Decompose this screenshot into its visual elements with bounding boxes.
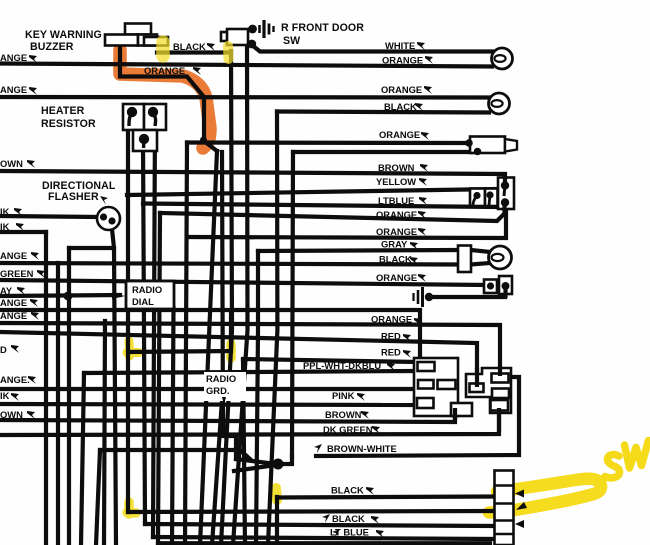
svg-text:RED: RED	[381, 347, 401, 358]
yellow mark bottom left corner	[127, 502, 136, 514]
wire ik2	[0, 230, 46, 234]
wire stem orange into dot2	[502, 203, 506, 216]
wire orange C to socket2	[0, 95, 489, 100]
wire v69 flasher leg lower	[67, 248, 71, 545]
right label hook arrows	[314, 42, 433, 538]
wire v258	[256, 251, 258, 545]
svg-text:WHITE: WHITE	[385, 40, 415, 51]
svg-text:IK: IK	[0, 390, 10, 401]
svg-text:ORANGE: ORANGE	[381, 84, 422, 95]
wire gray radio dial	[0, 295, 120, 296]
wire merge junction upper	[236, 456, 292, 464]
wire merge lower	[234, 465, 276, 471]
svg-text:ORANGE: ORANGE	[144, 65, 185, 76]
svg-text:HEATER: HEATER	[41, 105, 85, 117]
socket 3	[489, 246, 512, 269]
yellow sw text	[605, 441, 649, 478]
wire brown-white	[316, 377, 519, 456]
wire red2	[243, 359, 416, 362]
switch dots	[248, 25, 257, 34]
svg-text:BROWN: BROWN	[325, 409, 362, 420]
svg-text:PINK: PINK	[332, 390, 355, 401]
wire brown row	[0, 171, 505, 183]
wire radio grd drop	[212, 400, 222, 545]
junction dot kink	[200, 137, 207, 144]
labels left edge	[0, 52, 34, 420]
wire v228	[221, 51, 232, 545]
svg-text:ANGE: ANGE	[0, 297, 27, 308]
wire gray right to socket3	[471, 250, 490, 252]
right side labels	[303, 40, 423, 538]
svg-text:RESISTOR: RESISTOR	[41, 118, 96, 130]
wire radio yellow mark	[129, 311, 231, 352]
svg-text:YELLOW: YELLOW	[376, 176, 416, 187]
gray black inline rect	[458, 246, 471, 273]
svg-text:GRD.: GRD.	[206, 385, 229, 396]
wire orange A left to socket1	[0, 64, 492, 67]
svg-text:LTBLUE: LTBLUE	[378, 195, 414, 206]
wire v58	[56, 263, 60, 545]
svg-text:ORANGE: ORANGE	[379, 129, 420, 140]
ground symbol top	[260, 20, 274, 38]
wire black right socket3	[471, 263, 490, 265]
svg-text:R FRONT DOOR: R FRONT DOOR	[281, 22, 364, 34]
wire v128 heater leg left	[126, 116, 130, 512]
svg-text:ANGE: ANGE	[0, 250, 27, 261]
wire pink flasher	[0, 216, 98, 217]
yellow mark radio corner right	[226, 344, 236, 358]
wire orange row5	[187, 207, 506, 238]
svg-text:IK: IK	[0, 221, 10, 232]
wire kink diagonal	[204, 141, 217, 151]
flasher arrow	[100, 196, 108, 205]
svg-text:BROWN-WHITE: BROWN-WHITE	[327, 443, 397, 454]
svg-text:DIAL: DIAL	[132, 296, 154, 307]
wire black to socket2	[277, 112, 489, 113]
wire v246	[233, 42, 248, 545]
ground symbol mid	[414, 287, 423, 307]
wire staircase	[222, 152, 236, 459]
yellow mark black corner	[276, 488, 277, 500]
wire riser red1 into connector	[475, 368, 479, 387]
svg-text:SW: SW	[283, 35, 300, 47]
wire bottom edge	[158, 541, 490, 545]
svg-text:ORANGE: ORANGE	[376, 272, 417, 283]
wire ppl-wht-dkblu	[84, 371, 416, 373]
wire riser brown into block	[453, 408, 457, 420]
wire v114 flasher leg	[112, 229, 116, 545]
wire v155 heater leg right	[153, 118, 155, 537]
wire orange row10	[0, 323, 500, 372]
wire v161	[158, 213, 160, 543]
radio connector block	[414, 358, 472, 416]
wire orange row4	[160, 213, 504, 221]
wire v100	[96, 450, 100, 545]
wire black1 bottom	[277, 497, 495, 498]
wire v293	[292, 152, 293, 456]
svg-text:KEY WARNING: KEY WARNING	[25, 29, 102, 41]
wire dk green	[0, 412, 499, 435]
yellow marker loop sw	[489, 479, 601, 513]
svg-text:ORANGE: ORANGE	[382, 55, 423, 66]
connector orange dot boxes	[484, 276, 512, 294]
svg-text:BLACK: BLACK	[332, 513, 365, 524]
connector brown yellow	[498, 178, 514, 212]
svg-text:BROWN: BROWN	[378, 162, 415, 173]
wire riser dkgreen into connector	[497, 408, 501, 432]
svg-text:AY: AY	[0, 285, 13, 296]
wire v48	[44, 232, 48, 545]
connector mid piece	[466, 368, 511, 413]
yellow mark radio corner left	[127, 341, 139, 356]
strip arrows	[515, 490, 527, 529]
svg-text:BLACK: BLACK	[173, 41, 206, 52]
wire vRED2 drop	[243, 360, 245, 545]
wire orange plug top	[187, 140, 466, 145]
svg-text:BUZZER: BUZZER	[30, 41, 74, 53]
wire black row to socket3	[0, 263, 458, 265]
svg-text:ORANGE: ORANGE	[376, 226, 417, 237]
wire v105	[104, 321, 105, 545]
svg-text:PPL-WHT-DKBLU: PPL-WHT-DKBLU	[303, 360, 381, 371]
wire gray row	[258, 250, 458, 251]
wire riser orange into connector	[498, 366, 502, 376]
yellow mark switch leg	[223, 46, 234, 59]
heater resistor body	[123, 104, 166, 151]
wire ground row	[430, 290, 505, 297]
wire black2 bottom	[145, 524, 495, 526]
svg-text:BLACK: BLACK	[331, 485, 364, 496]
svg-text:BLACK: BLACK	[384, 101, 417, 112]
socket 1	[492, 48, 513, 69]
plug connector orange	[465, 137, 517, 156]
wire flasher jog	[69, 246, 114, 250]
wire ltblue bottom	[153, 537, 495, 539]
svg-text:GRAY: GRAY	[381, 239, 408, 250]
svg-text:ANGE: ANGE	[0, 310, 27, 321]
svg-text:GREEN: GREEN	[0, 268, 34, 279]
orange highlighter path	[120, 50, 210, 148]
r front door switch	[221, 29, 248, 45]
wire pink row	[0, 404, 417, 405]
wire plug bottom	[293, 150, 476, 154]
connector ltblue boxes	[470, 189, 498, 207]
wire stem orange box tail	[503, 287, 507, 298]
svg-text:BLACK: BLACK	[379, 254, 412, 265]
wire yellow row	[127, 189, 497, 195]
wire green orange row	[0, 280, 486, 285]
svg-text:ANGE: ANGE	[0, 84, 27, 95]
component names	[25, 22, 364, 203]
wire v143 heater leg mid	[143, 140, 145, 524]
wire black1 corner drop	[275, 497, 279, 545]
socket 2	[489, 93, 510, 114]
wire white to socket1	[252, 45, 492, 52]
wire buzzer orange leg	[120, 45, 204, 141]
svg-text:FLASHER: FLASHER	[48, 191, 99, 203]
wire brown row2	[0, 414, 455, 422]
wire v187	[185, 143, 187, 545]
svg-text:ANGE.: ANGE.	[0, 374, 30, 385]
svg-text:RED: RED	[381, 331, 401, 342]
svg-text:IK: IK	[0, 206, 10, 217]
wire orange row12	[0, 387, 415, 391]
svg-text:DK GREEN: DK GREEN	[323, 424, 373, 435]
svg-text:OWN: OWN	[0, 409, 23, 420]
wire v217	[200, 151, 217, 545]
junction dot gray wire	[64, 292, 73, 301]
bottom connector strip	[495, 471, 514, 545]
wire v100 branch	[100, 450, 250, 459]
svg-text:D: D	[0, 344, 7, 355]
radio dial box	[112, 281, 174, 309]
wire stem brown into dot1	[503, 176, 507, 187]
svg-text:RADIO: RADIO	[132, 284, 162, 295]
wire black buzzer to switch	[157, 50, 231, 54]
wire ltblue row	[143, 204, 499, 208]
wire v84	[81, 373, 84, 545]
wire orange row9	[0, 310, 420, 358]
svg-text:OWN: OWN	[0, 158, 23, 169]
directional flasher	[97, 207, 120, 230]
hook arrows left	[11, 55, 45, 419]
wire red1	[0, 332, 477, 387]
wire cell3 bottom	[128, 511, 495, 512]
yellow mark buzzer	[156, 42, 170, 56]
key warning buzzer body	[105, 24, 168, 46]
svg-text:ORANGE: ORANGE	[371, 314, 412, 325]
wire v279	[268, 112, 277, 545]
svg-text:ANGE: ANGE	[0, 52, 27, 63]
heater terminal dots	[127, 107, 158, 144]
svg-text:RADIO: RADIO	[206, 373, 236, 384]
radio grd text	[204, 372, 246, 405]
svg-text:ORANGE: ORANGE	[376, 209, 417, 220]
junction dot merge	[273, 459, 284, 470]
wire v173 radio dial leg	[172, 308, 174, 545]
